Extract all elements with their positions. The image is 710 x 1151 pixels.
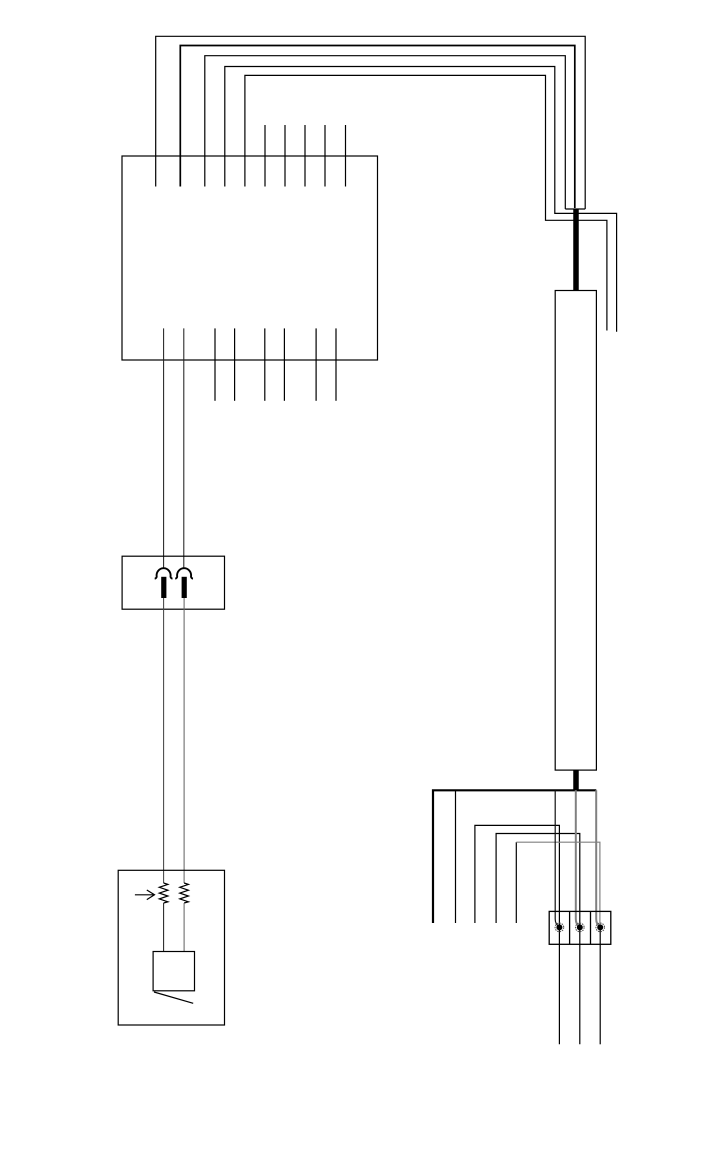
cable thick bar lower xyxy=(573,770,579,790)
bottom pin 5 xyxy=(264,328,266,400)
wire W2 (thick) xyxy=(180,46,575,209)
bus vertical 2 xyxy=(455,790,457,923)
cable thick bar upper xyxy=(573,209,579,291)
pin stub 10 xyxy=(345,125,347,187)
junction bar (wires 1-3 merge) xyxy=(565,208,585,210)
wire R2 to element xyxy=(183,903,185,952)
divider 1 xyxy=(569,911,571,944)
wire W3 xyxy=(205,56,566,209)
inline connector box J1 xyxy=(122,556,224,609)
wire left B lower xyxy=(183,598,185,883)
L-wire 3 horizontal (gray) xyxy=(516,842,600,925)
terminal stud 3 xyxy=(597,924,603,930)
divider 2 xyxy=(590,911,592,944)
L-wire 2 xyxy=(496,834,580,1045)
bottom pin 7 xyxy=(315,328,317,400)
female terminal arc 2 xyxy=(175,568,193,578)
drop wire D3 (gray) xyxy=(596,790,600,926)
L-wire 1 xyxy=(475,825,560,1044)
L-wire 3 vertical xyxy=(515,842,517,923)
terminal block xyxy=(549,911,611,944)
terminal stud 2 xyxy=(577,924,583,930)
resistor R2 xyxy=(180,883,189,903)
resistor R1 (variable) xyxy=(159,883,168,903)
bottom pin 6 xyxy=(283,328,285,400)
pin stub 9 xyxy=(324,125,326,187)
harness rectangle xyxy=(555,291,596,771)
female terminal arc 1 xyxy=(155,568,173,578)
male pin bar 2 xyxy=(182,577,187,598)
sensor box xyxy=(118,870,224,1025)
lever xyxy=(154,992,193,1003)
bottom pin 4 xyxy=(234,328,236,400)
terminal 3 lower lead xyxy=(599,927,601,1044)
pin stub 6 xyxy=(264,125,266,187)
wire R1 to element xyxy=(163,903,165,952)
ECU box U1 xyxy=(122,156,378,360)
adjustment arrow xyxy=(135,890,155,900)
wire W1 xyxy=(156,36,586,209)
wire left A lower (connector to sensor box) xyxy=(163,598,165,883)
thick bus horizontal xyxy=(433,790,596,923)
drop wire D1 xyxy=(555,790,559,926)
bottom pin 8 xyxy=(335,328,337,400)
terminal stud 1 xyxy=(556,924,562,930)
wire left A (pin1 down to inline connector) xyxy=(163,328,165,567)
pin stub 8 xyxy=(304,125,306,187)
male pin bar 1 xyxy=(161,577,166,598)
pin stub 7 xyxy=(284,125,286,187)
bottom pin 3 xyxy=(214,328,216,400)
wire W5 xyxy=(245,75,607,330)
drop wire D2 (gray) xyxy=(576,790,580,926)
element box xyxy=(153,952,194,991)
wire left B (pin2 down to inline connector) xyxy=(183,328,185,567)
wire W4 xyxy=(225,67,617,332)
